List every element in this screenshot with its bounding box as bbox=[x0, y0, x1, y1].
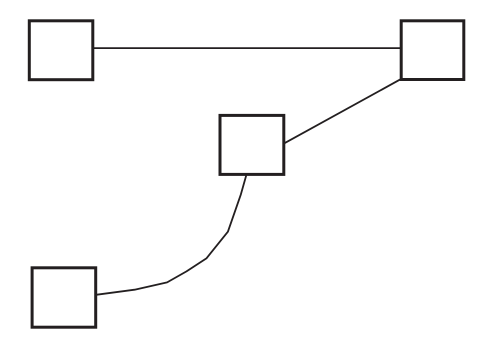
wire: curved edge node3-node4 bbox=[96, 176, 246, 295]
node D: bottom-left box bbox=[32, 268, 96, 327]
node A: top-left box bbox=[29, 21, 93, 80]
wire: diagonal edge node2-node3 bbox=[285, 79, 402, 144]
node B: top-right box bbox=[401, 21, 464, 80]
wire: horizontal edge node1-node2 bbox=[93, 47, 402, 49]
node C: middle box bbox=[220, 115, 284, 174]
